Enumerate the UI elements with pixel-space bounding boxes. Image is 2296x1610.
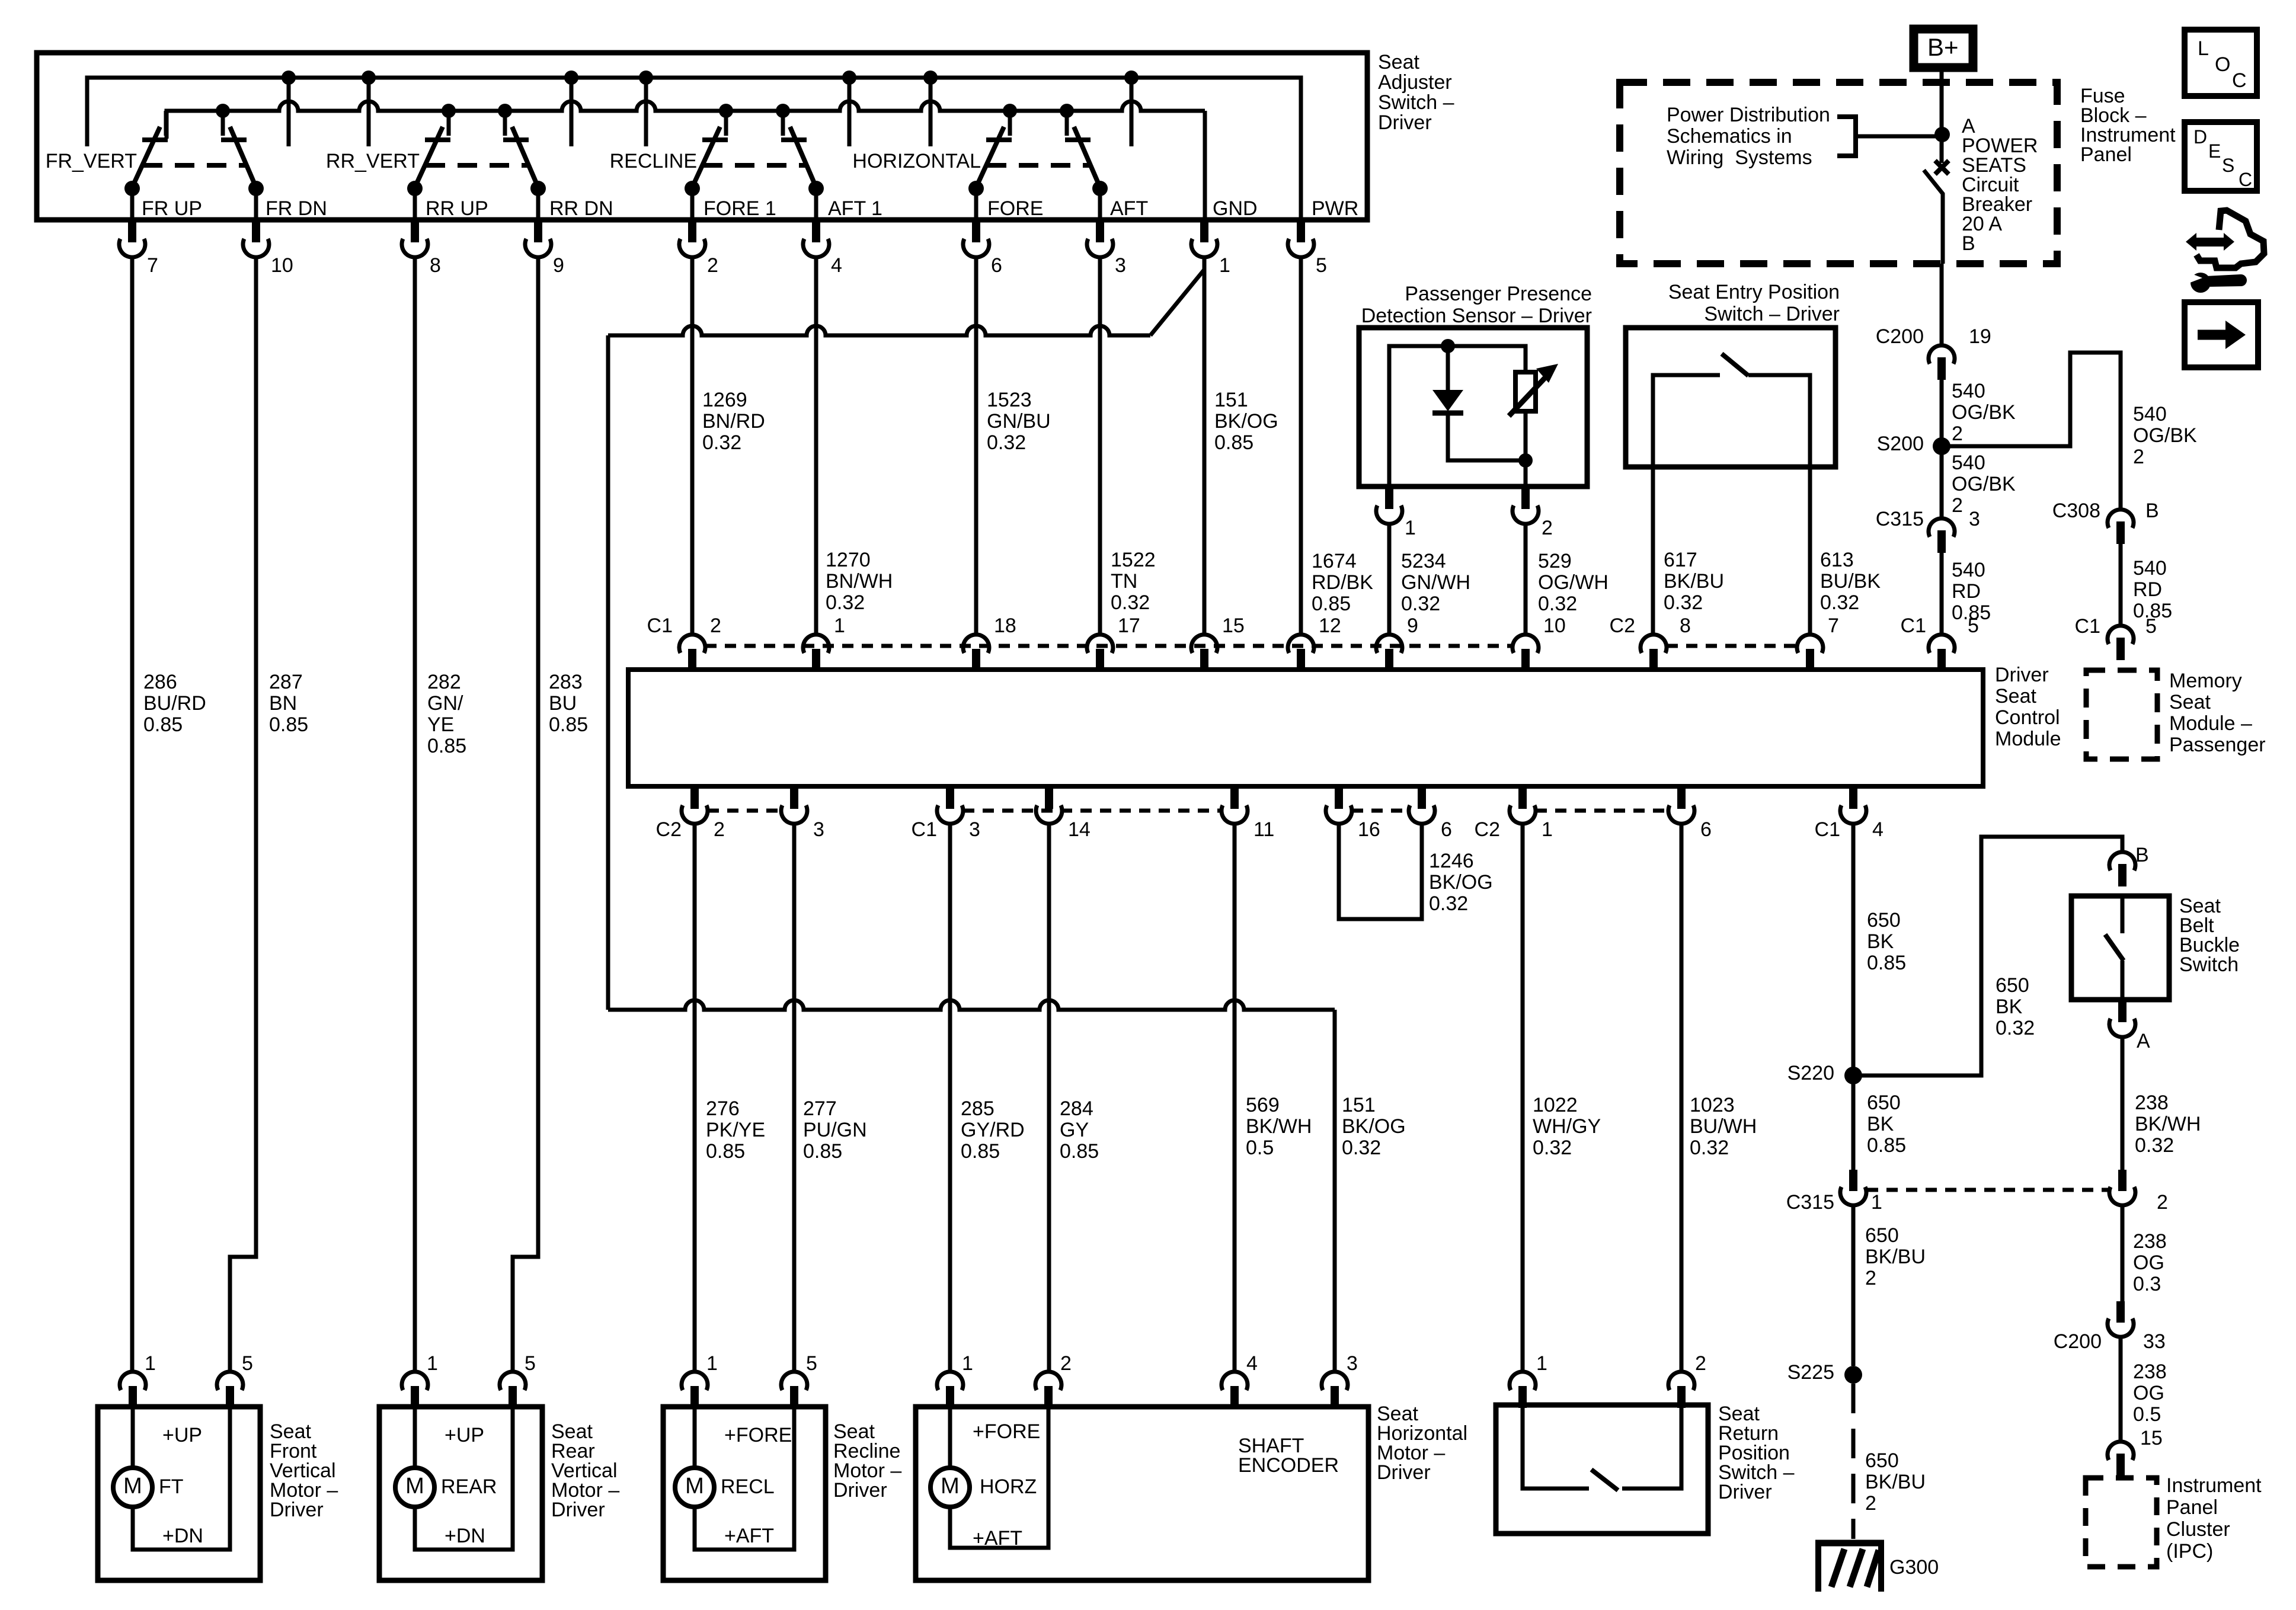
label 617 BK/BU 0.32	[1664, 549, 1724, 614]
svg-text:B+: B+	[1927, 33, 1959, 61]
label 1522 TN 0.32	[1111, 549, 1156, 614]
svg-text:1: 1	[1871, 1191, 1882, 1214]
label G300	[1889, 1556, 1939, 1579]
label 276 PK/YE 0.85	[706, 1097, 765, 1163]
wire 613 BU/BK (entry switch to module C2-7)	[1808, 467, 1812, 635]
svg-text:6: 6	[991, 254, 1002, 277]
switch RECLINE mechanical linkage (dashed)	[703, 163, 805, 168]
svg-text:PU/GN: PU/GN	[803, 1119, 867, 1141]
svg-text:2: 2	[1542, 517, 1553, 539]
motor M circle (front vertical)	[113, 1468, 152, 1507]
svg-text:M: M	[405, 1474, 424, 1499]
label 613 BU/BK 0.32	[1820, 549, 1881, 614]
svg-text:AFT 1: AFT 1	[828, 197, 882, 220]
svg-text:650: 650	[1996, 974, 2029, 997]
module bottom connector dashed line C1 (16-6)	[1352, 809, 1409, 813]
svg-text:BU: BU	[549, 692, 577, 715]
power distribution schematics note	[1667, 104, 1830, 169]
svg-text:BN: BN	[269, 692, 297, 715]
module bottom connector pin 6	[1668, 785, 1712, 841]
svg-text:OG/BK: OG/BK	[1952, 473, 2016, 495]
svg-text:0.32: 0.32	[1664, 591, 1703, 614]
svg-text:M: M	[685, 1474, 704, 1499]
wire 650 BK (S220 to C315-1)	[1851, 1076, 1856, 1170]
svg-text:1246: 1246	[1429, 850, 1474, 872]
module bottom connector pin 4	[1840, 785, 1884, 841]
label 238 OG 0.3	[2133, 1230, 2167, 1295]
instrument panel cluster dashed box	[2086, 1478, 2157, 1567]
seat belt buckle switch box	[2071, 896, 2169, 1000]
svg-text:BK: BK	[1867, 930, 1894, 953]
module top connector pin 10	[1512, 614, 1566, 671]
wire 277 PU/GN (module C2-3 to recline motor pin 5)	[792, 823, 797, 1372]
svg-text:9: 9	[1407, 614, 1418, 637]
svg-text:650: 650	[1865, 1449, 1899, 1472]
svg-text:C1: C1	[1815, 818, 1840, 841]
seat return position switch label	[1718, 1403, 1795, 1503]
svg-text:0.32: 0.32	[1996, 1017, 2035, 1039]
module bottom connector pin 16	[1326, 785, 1380, 841]
memory seat module label	[2169, 670, 2266, 756]
svg-text:BK/OG: BK/OG	[1214, 410, 1278, 433]
svg-text:Driver: Driver	[1718, 1481, 1772, 1503]
svg-text:650: 650	[1867, 1092, 1901, 1114]
wire 1523 GN/BU (pin 6 to module C1-18)	[974, 257, 978, 635]
label 283 BU 0.85	[549, 671, 588, 736]
svg-text:S225: S225	[1787, 1361, 1834, 1384]
SHAFT ENCODER label	[1238, 1435, 1339, 1477]
svg-text:286: 286	[143, 671, 177, 693]
svg-text:Driver: Driver	[270, 1499, 324, 1521]
switch connector pin 6	[963, 219, 1002, 277]
wire 238 BK/WH (buckle switch to C315-2)	[2121, 1036, 2125, 1170]
svg-text:540: 540	[1952, 380, 1985, 402]
open contact drop from B+ bus at x=1909	[1124, 71, 1139, 146]
svg-text:+DN: +DN	[162, 1525, 203, 1547]
svg-text:238: 238	[2133, 1230, 2167, 1253]
module top connector pin 9	[1376, 614, 1418, 671]
module top connector pin 7	[1797, 614, 1839, 671]
wire 286 BU/RD (pin 7 to front vertical motor)	[130, 257, 135, 1372]
passenger presence detection sensor label	[1361, 283, 1592, 327]
wire 540 OG/BK branch from S200 to C308	[1942, 353, 2121, 510]
svg-text:613: 613	[1820, 549, 1854, 571]
svg-text:0.85: 0.85	[549, 713, 588, 736]
svg-text:0.32: 0.32	[1538, 593, 1577, 615]
switch RR_VERT mechanical linkage (dashed)	[426, 163, 527, 168]
module top connector pin 8	[1641, 614, 1691, 671]
label RR_VERT	[326, 150, 420, 172]
seat front vertical motor winding	[133, 1407, 230, 1550]
svg-text:GN/WH: GN/WH	[1401, 571, 1470, 594]
svg-text:(IPC): (IPC)	[2166, 1540, 2213, 1563]
seat rear vertical motor winding	[415, 1407, 513, 1550]
wire 151 BK/OG branch (diagonal from pin 1 down-left)	[1150, 270, 1204, 335]
svg-text:BU/WH: BU/WH	[1690, 1115, 1757, 1138]
svg-text:Passenger: Passenger	[2169, 734, 2266, 756]
svg-text:G300: G300	[1889, 1556, 1939, 1579]
motor M circle (rear vertical)	[395, 1468, 434, 1507]
seat belt buckle switch label	[2179, 895, 2240, 976]
svg-text:0.85: 0.85	[269, 713, 308, 736]
svg-text:3: 3	[813, 818, 824, 841]
svg-text:FR DN: FR DN	[266, 197, 327, 220]
svg-text:BN/WH: BN/WH	[826, 570, 893, 593]
seat belt buckle switch connector pin A	[2109, 998, 2150, 1052]
module bottom connector pin 1	[1510, 785, 1553, 841]
svg-text:151: 151	[1342, 1094, 1376, 1116]
seat horizontal motor label	[1377, 1403, 1467, 1484]
svg-text:Cluster: Cluster	[2166, 1518, 2230, 1541]
svg-text:FR_VERT: FR_VERT	[46, 150, 137, 172]
svg-text:2: 2	[707, 254, 718, 277]
svg-text:O: O	[2215, 53, 2230, 76]
wire 540 OG/BK from breaker to C200	[1940, 264, 1944, 345]
svg-text:1: 1	[706, 1352, 718, 1375]
wire 1022 WH/GY (module C2-1 to seat return position switch pin 1)	[1521, 823, 1525, 1372]
svg-text:0.85: 0.85	[427, 735, 466, 757]
label FR_VERT	[46, 150, 137, 172]
wire 1246 BK/OG jumper loop between module pins 16 and 6	[1339, 823, 1422, 919]
module bottom connector pin 14	[1036, 785, 1091, 841]
svg-text:GN/BU: GN/BU	[987, 410, 1051, 433]
svg-text:BN/RD: BN/RD	[702, 410, 765, 433]
svg-text:Module: Module	[1995, 728, 2061, 750]
svg-text:BU/BK: BU/BK	[1820, 570, 1881, 593]
svg-text:C200: C200	[2054, 1330, 2102, 1353]
svg-text:0.5: 0.5	[2133, 1403, 2161, 1426]
svg-text:E: E	[2208, 140, 2221, 162]
svg-text:HORZ: HORZ	[980, 1475, 1037, 1498]
label 287 BN 0.85	[269, 671, 308, 736]
svg-text:8: 8	[1680, 614, 1691, 637]
label 151 BK/OG 0.85	[1214, 389, 1278, 454]
diode inside sensor	[1432, 390, 1463, 413]
svg-text:5: 5	[242, 1352, 253, 1375]
right arrow icon box	[2185, 302, 2258, 367]
wire 1270 BN/WH (pin 4 to module C1-1)	[814, 257, 818, 635]
wire 284 GY (module C1-14 to horizontal motor pin 2)	[1047, 823, 1051, 1372]
label 650 BK 0.85 (below S220)	[1867, 1092, 1906, 1157]
module top connector pin 17	[1087, 614, 1140, 671]
seat return position switch internal contacts	[1523, 1405, 1681, 1490]
seat horizontal motor connector pin 2	[1035, 1352, 1072, 1408]
wire 238 OG (C315-2 to C200-33)	[2121, 1206, 2125, 1302]
svg-text:33: 33	[2143, 1330, 2166, 1353]
svg-text:BK: BK	[1996, 996, 2023, 1018]
label 650 BK 0.32	[1996, 974, 2035, 1039]
svg-text:Seat Entry Position: Seat Entry Position	[1668, 281, 1840, 303]
svg-text:Wiring Systems: Wiring Systems	[1667, 146, 1812, 169]
label 284 GY 0.85	[1060, 1097, 1099, 1163]
label 286 BU/RD 0.85	[143, 671, 206, 736]
seat adjuster switch box outline	[37, 53, 1367, 220]
sensor connector pin 1	[1376, 485, 1416, 539]
open contact drop from B+ bus at x=1433	[842, 71, 856, 146]
switch RR_VERT right pole (RR DN)	[498, 104, 546, 219]
svg-text:BK/OG: BK/OG	[1342, 1115, 1406, 1138]
svg-text:B: B	[2145, 500, 2159, 522]
svg-text:14: 14	[1068, 818, 1091, 841]
switch RECLINE right pole (AFT 1)	[776, 104, 824, 219]
svg-text:BK/BU: BK/BU	[1865, 1471, 1926, 1493]
svg-text:RR DN: RR DN	[549, 197, 613, 220]
svg-text:GY/RD: GY/RD	[961, 1119, 1025, 1141]
fuse block label	[2080, 85, 2176, 166]
svg-text:FORE: FORE	[987, 197, 1043, 220]
ground bus wire (bus2) with GND drop	[167, 101, 1205, 219]
driver seat control module box	[628, 670, 1983, 786]
svg-text:Panel: Panel	[2080, 143, 2132, 166]
connector C315 pin 2	[2109, 1170, 2168, 1214]
module top connector pin 18	[963, 614, 1016, 671]
svg-text:C2: C2	[1610, 614, 1635, 637]
svg-text:0.32: 0.32	[1690, 1137, 1729, 1159]
wire 151 BK/OG branch upper horizontal run with hops	[608, 326, 1150, 1010]
svg-text:Seat: Seat	[2169, 691, 2211, 713]
seat adjuster switch label	[1378, 51, 1454, 134]
svg-text:M: M	[123, 1474, 142, 1499]
motor M circle (recline)	[675, 1468, 714, 1507]
wire 529 OG/WH (sensor pin 2 to module C1-10)	[1524, 523, 1528, 635]
svg-text:Driver: Driver	[1995, 664, 2049, 686]
circuit breaker text A POWER SEATS Circuit Breaker 20 A B	[1962, 115, 2038, 255]
svg-text:0.32: 0.32	[1533, 1137, 1572, 1159]
svg-text:Power Distribution: Power Distribution	[1667, 104, 1830, 126]
svg-text:Passenger Presence: Passenger Presence	[1405, 283, 1592, 305]
svg-text:10: 10	[1543, 614, 1566, 637]
svg-text:RD: RD	[2133, 578, 2162, 601]
wire 283 BU (pin 9 to rear vertical motor) with jog	[513, 257, 538, 1372]
svg-text:RECL: RECL	[721, 1475, 775, 1498]
module top connector pin 12	[1288, 614, 1341, 671]
svg-text:OG/BK: OG/BK	[1952, 401, 2016, 424]
svg-text:0.85: 0.85	[1214, 431, 1253, 454]
svg-text:B: B	[1962, 232, 1975, 255]
svg-text:M: M	[941, 1474, 960, 1499]
module bottom connector label C2	[656, 818, 682, 841]
svg-text:540: 540	[2133, 403, 2167, 425]
svg-text:5: 5	[806, 1352, 817, 1375]
svg-text:2: 2	[1952, 494, 1963, 517]
switch connector pin 10	[243, 219, 293, 277]
open contact drop from B+ bus at x=1090	[639, 71, 653, 146]
svg-text:S: S	[2222, 155, 2234, 176]
connector C308 pin B	[2052, 500, 2159, 544]
label 1022 WH/GY 0.32	[1533, 1094, 1601, 1159]
svg-text:Driver: Driver	[1377, 1461, 1431, 1484]
svg-text:+AFT: +AFT	[973, 1527, 1022, 1550]
variable resistor inside sensor	[1509, 364, 1558, 416]
label 540 RD 0.85 (memory branch)	[2133, 557, 2172, 622]
module top connector pin 5	[1929, 614, 1979, 671]
switch connector pin 9	[525, 219, 564, 277]
svg-text:2: 2	[1865, 1492, 1876, 1515]
wire 1269 BN/RD (pin 2 to module C1-2)	[690, 257, 695, 635]
svg-text:Instrument: Instrument	[2166, 1474, 2262, 1497]
svg-text:15: 15	[2140, 1427, 2163, 1449]
vehicle wrench icon	[2186, 210, 2264, 293]
motor labels +FORE RECL +AFT (recline)	[721, 1424, 792, 1547]
svg-text:C: C	[2232, 69, 2247, 92]
label 5234 GN/WH 0.32	[1401, 550, 1470, 615]
wire 282 GN/YE (pin 8 to rear vertical motor)	[413, 257, 417, 1372]
svg-text:BK/BU: BK/BU	[1865, 1246, 1926, 1268]
svg-text:0.85: 0.85	[143, 713, 183, 736]
svg-text:YE: YE	[427, 713, 454, 736]
svg-text:0.32: 0.32	[1429, 892, 1468, 915]
svg-text:REAR: REAR	[441, 1475, 497, 1498]
svg-text:WH/GY: WH/GY	[1533, 1115, 1601, 1138]
reference bracket to power distribution	[1837, 117, 1938, 156]
svg-text:OG: OG	[2133, 1382, 2164, 1404]
svg-text:D: D	[2193, 126, 2207, 148]
svg-text:540: 540	[1952, 559, 1985, 581]
module top connector pin 2	[679, 614, 721, 671]
open contact drop from B+ bus at x=1570	[923, 71, 938, 146]
svg-text:OG/BK: OG/BK	[2133, 424, 2197, 447]
switch connector pin 1	[1191, 219, 1230, 277]
svg-text:12: 12	[1319, 614, 1341, 637]
open contact drop from B+ bus at x=964	[564, 71, 578, 146]
svg-text:0.32: 0.32	[1342, 1137, 1381, 1159]
svg-text:C1: C1	[647, 614, 673, 637]
svg-text:2: 2	[1695, 1352, 1706, 1375]
svg-text:FORE 1: FORE 1	[703, 197, 776, 220]
svg-text:0.85: 0.85	[1060, 1140, 1099, 1163]
svg-text:Adjuster: Adjuster	[1378, 71, 1452, 94]
switch connector pin 2	[679, 219, 718, 277]
seat recline motor connector pin 1	[682, 1352, 718, 1408]
svg-text:BK/WH: BK/WH	[2135, 1113, 2201, 1135]
svg-text:Control: Control	[1995, 706, 2060, 729]
svg-text:617: 617	[1664, 549, 1697, 571]
label pin 15 of IPC	[2140, 1427, 2163, 1449]
ground G300 symbol	[1815, 1540, 1884, 1592]
svg-text:4: 4	[831, 254, 842, 277]
wire 540 RD to memory seat module	[2119, 544, 2123, 626]
svg-text:0.32: 0.32	[1401, 593, 1440, 615]
shaft encoder connector pin 4	[1221, 1352, 1258, 1408]
svg-text:Driver: Driver	[833, 1479, 887, 1502]
label 650 BK/BU 2 (below S225)	[1865, 1449, 1926, 1515]
svg-text:18: 18	[994, 614, 1016, 637]
seat entry position switch box	[1626, 328, 1835, 467]
svg-text:+DN: +DN	[445, 1525, 485, 1547]
svg-text:8: 8	[430, 254, 441, 277]
module bottom connector label C2 (right)	[1475, 818, 1500, 841]
svg-text:Seat: Seat	[1378, 51, 1419, 73]
label 285 GY/RD 0.85	[961, 1097, 1025, 1163]
svg-text:529: 529	[1538, 550, 1572, 572]
instrument panel cluster connector pin 15	[2108, 1442, 2134, 1476]
open contact drop from B+ bus at x=622	[362, 71, 376, 146]
module top connector dashed line C2	[1667, 644, 1797, 648]
svg-text:5: 5	[1968, 614, 1979, 637]
switch connector pin 5	[1288, 219, 1327, 277]
switch connector pin 8	[402, 219, 441, 277]
svg-text:2: 2	[714, 818, 725, 841]
seat rear vertical motor label	[551, 1420, 619, 1521]
svg-text:+UP: +UP	[445, 1424, 484, 1446]
switch HORIZONTAL left pole (FORE)	[968, 104, 1017, 219]
svg-text:PK/YE: PK/YE	[706, 1119, 765, 1141]
svg-text:3: 3	[1347, 1352, 1358, 1375]
label 151 BK/OG 0.32	[1342, 1094, 1406, 1159]
svg-text:BK/OG: BK/OG	[1429, 871, 1493, 894]
wire 276 PK/YE (module C2-2 to recline motor pin 1)	[693, 823, 697, 1372]
wire 285 GY/RD (module C1-3 to horizontal motor pin 1)	[948, 823, 952, 1372]
module bottom connector pin 3	[937, 785, 980, 841]
splice S200	[1877, 433, 1950, 455]
seat entry position switch label	[1668, 281, 1840, 325]
label 277 PU/GN 0.85	[803, 1097, 867, 1163]
svg-text:7: 7	[1828, 614, 1839, 637]
C315 connector dashed line	[1867, 1188, 2109, 1192]
LOC icon box	[2185, 30, 2257, 96]
svg-text:282: 282	[427, 671, 461, 693]
svg-text:Switch – Driver: Switch – Driver	[1704, 303, 1840, 325]
seat rear vertical motor box	[379, 1407, 542, 1580]
label 282 GN/YE 0.85	[427, 671, 466, 757]
svg-text:Driver: Driver	[551, 1499, 605, 1521]
svg-text:0.85: 0.85	[1312, 593, 1351, 615]
seat entry position switch contacts and blade	[1653, 354, 1810, 467]
svg-text:Module –: Module –	[2169, 712, 2252, 735]
label 1246 BK/OG 0.32	[1429, 850, 1493, 915]
svg-text:+FORE: +FORE	[724, 1424, 792, 1446]
switch FR_VERT right pole (FR DN)	[216, 104, 264, 219]
driver seat control module label	[1995, 664, 2061, 750]
wire 569 BK/WH (module C1-11 to shaft encoder pin 4)	[1233, 823, 1237, 1372]
module top connector pin 1	[803, 614, 845, 671]
svg-text:0.32: 0.32	[1111, 591, 1150, 614]
svg-text:0.32: 0.32	[1820, 591, 1859, 614]
seat front vertical motor box	[98, 1407, 260, 1580]
svg-text:0.3: 0.3	[2133, 1273, 2161, 1295]
label 540 OG/BK 2 (C308 branch)	[2133, 403, 2197, 468]
svg-text:ENCODER: ENCODER	[1238, 1454, 1339, 1477]
svg-text:0.32: 0.32	[2135, 1134, 2174, 1157]
svg-text:5: 5	[2145, 615, 2157, 638]
seat horizontal motor connector pin 1	[937, 1352, 973, 1408]
connector C200 pin 33	[2054, 1301, 2166, 1353]
svg-text:1023: 1023	[1690, 1094, 1735, 1116]
svg-text:2: 2	[1060, 1352, 1072, 1375]
svg-text:BK/BU: BK/BU	[1664, 570, 1724, 593]
instrument panel cluster label	[2166, 1474, 2262, 1563]
wire from S200 to C315	[1940, 446, 1944, 518]
label 569 BK/WH 0.5	[1246, 1094, 1312, 1159]
wire 151 BK/OG branch lower horizontal run with hops to shaft encoder pin 3	[608, 1000, 1335, 1372]
svg-text:Detection Sensor – Driver: Detection Sensor – Driver	[1361, 305, 1592, 327]
svg-text:HORIZONTAL: HORIZONTAL	[852, 150, 981, 172]
label 1270 BN/WH 0.32	[826, 549, 893, 614]
svg-text:Seat: Seat	[1995, 685, 2036, 708]
switch FR_VERT mechanical linkage (dashed)	[143, 163, 245, 168]
B+ battery terminal symbol	[1914, 29, 1973, 68]
motor labels +FORE HORZ +AFT (horizontal)	[973, 1420, 1040, 1550]
seat horizontal motor and shaft encoder box	[916, 1407, 1368, 1580]
svg-text:0.85: 0.85	[1867, 1134, 1906, 1157]
module bottom connector dashed line C2 (right)	[1536, 809, 1668, 813]
seat horizontal motor winding	[950, 1407, 1048, 1548]
seat return position switch connector pin 2	[1668, 1352, 1706, 1408]
svg-text:TN: TN	[1111, 570, 1137, 593]
svg-text:GN/: GN/	[427, 692, 463, 715]
switch RECLINE left pole (FORE 1)	[685, 104, 733, 219]
svg-text:285: 285	[961, 1097, 994, 1120]
